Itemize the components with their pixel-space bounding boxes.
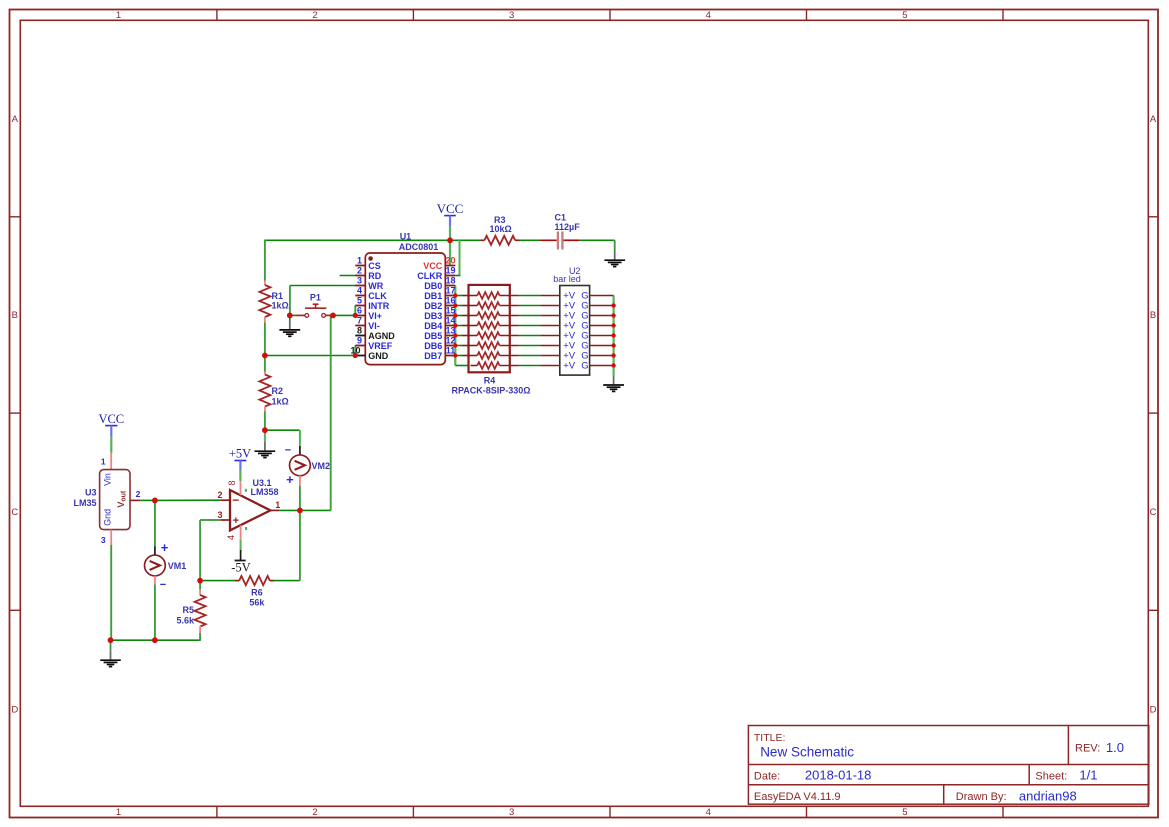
svg-text:REV:: REV:: [1075, 743, 1100, 755]
power flag -5V: [231, 540, 250, 575]
svg-text:4: 4: [357, 286, 362, 296]
svg-text:VCC: VCC: [437, 201, 464, 216]
wire P1 to output node: [330, 315, 332, 510]
junction node GND-pin10: [353, 353, 358, 358]
svg-text:INTR: INTR: [368, 301, 389, 311]
svg-text:1: 1: [116, 10, 121, 21]
junction node VI+: [353, 313, 358, 318]
junction nodes DB bus: [453, 293, 457, 357]
svg-text:Drawn By:: Drawn By:: [956, 791, 1007, 803]
svg-text:GND: GND: [368, 351, 389, 361]
svg-text:−: −: [285, 444, 291, 456]
wire R3 to C1: [519, 239, 540, 241]
wire R2 bottom: [264, 412, 266, 431]
svg-text:56k: 56k: [249, 598, 265, 608]
svg-text:C: C: [11, 507, 18, 518]
svg-text:A: A: [12, 114, 19, 125]
svg-text:Sheet:: Sheet:: [1035, 770, 1067, 782]
wire P1 to VI+: [333, 314, 355, 316]
junction node P1-right: [330, 313, 336, 319]
svg-text:TITLE:: TITLE:: [754, 732, 786, 744]
svg-text:DB4: DB4: [424, 321, 442, 331]
resistor R5 5.6k: [176, 589, 205, 633]
svg-text:4: 4: [226, 535, 236, 540]
svg-text:5: 5: [902, 10, 907, 21]
svg-text:Date:: Date:: [754, 770, 780, 782]
svg-text:CLK: CLK: [368, 291, 387, 301]
svg-text:U3: U3: [85, 488, 97, 498]
svg-text:2: 2: [312, 10, 317, 21]
voltmeter VM1: [145, 540, 187, 591]
svg-text:D: D: [1150, 704, 1157, 715]
wire VM2 to output node: [299, 486, 301, 510]
svg-text:1kΩ: 1kΩ: [272, 396, 289, 406]
svg-text:2: 2: [136, 489, 141, 499]
junction node GND-left: [262, 353, 268, 359]
svg-text:-5V: -5V: [231, 561, 250, 575]
resistor R3 10k: [480, 215, 519, 245]
svg-text:VI+: VI+: [368, 311, 382, 321]
svg-text:3: 3: [509, 10, 514, 21]
junction node VCC: [447, 237, 453, 243]
svg-text:1: 1: [101, 456, 106, 466]
svg-text:3: 3: [101, 535, 106, 545]
wire LM35 gnd down: [110, 545, 112, 640]
resistor R1 1k: [259, 281, 288, 323]
svg-text:4: 4: [706, 807, 711, 818]
svg-text:−: −: [160, 579, 166, 591]
svg-text:2: 2: [217, 490, 222, 500]
pushbutton P1: [290, 293, 333, 318]
svg-text:5: 5: [902, 807, 907, 818]
svg-text:VREF: VREF: [368, 341, 393, 351]
svg-text:6: 6: [357, 306, 362, 316]
wire R2 node to VM2: [265, 430, 300, 446]
svg-text:DB7: DB7: [424, 351, 442, 361]
svg-text:20: 20: [445, 256, 455, 266]
junction node R2-bottom: [262, 427, 268, 433]
svg-text:+: +: [233, 515, 239, 527]
svg-text:bar led: bar led: [553, 274, 581, 284]
wire VREF to GND: [354, 346, 356, 356]
svg-text:4: 4: [706, 10, 711, 21]
svg-text:10kΩ: 10kΩ: [489, 224, 511, 234]
svg-text:VCC: VCC: [423, 261, 443, 271]
svg-text:DB5: DB5: [424, 331, 442, 341]
svg-text:A: A: [1150, 114, 1157, 125]
svg-text:+: +: [161, 540, 169, 555]
power flag VCC (net VCC at U3): [98, 412, 124, 453]
svg-text:RPACK-8SIP-330Ω: RPACK-8SIP-330Ω: [451, 386, 530, 396]
svg-text:DB6: DB6: [424, 341, 442, 351]
svg-text:D: D: [11, 704, 18, 715]
wire R1 to R2: [264, 323, 266, 372]
svg-text:DB0: DB0: [424, 281, 442, 291]
wire op-amp pin3: [200, 520, 220, 581]
svg-text:DB1: DB1: [424, 291, 442, 301]
svg-text:3: 3: [509, 807, 514, 818]
svg-text:1: 1: [116, 807, 121, 818]
wire LM35 out: [140, 499, 155, 501]
wire GND row (R1/R2 node to pin 10): [265, 355, 355, 357]
ground (below R2): [264, 442, 266, 450]
IC U1 ADC0801: [350, 231, 455, 364]
svg-text:1kΩ: 1kΩ: [272, 300, 289, 310]
svg-text:−: −: [232, 493, 239, 507]
wire to pin 19 CLKR: [455, 240, 460, 275]
wire rail to ground: [110, 640, 112, 650]
wire C1 to ground: [579, 240, 615, 250]
svg-text:Vin: Vin: [103, 473, 113, 486]
junction node Vout: [152, 498, 158, 504]
wire VCC rail (R1 top to R3): [265, 239, 481, 241]
resistor pack R4 RPACK-8SIP-330: [451, 285, 530, 396]
LED bar U2: [540, 266, 613, 375]
junction node rail-left: [108, 637, 114, 643]
ground (main, below rail): [110, 650, 112, 659]
junction nodes U2 bus: [611, 303, 615, 367]
svg-text:CS: CS: [368, 261, 381, 271]
wire R5 top: [199, 581, 201, 589]
svg-text:18: 18: [445, 276, 455, 286]
svg-text:8: 8: [227, 480, 237, 485]
svg-text:19: 19: [445, 266, 455, 276]
wire WR to P1: [290, 286, 356, 316]
svg-text:DB3: DB3: [424, 311, 442, 321]
svg-text:2: 2: [312, 807, 317, 818]
svg-text:3: 3: [357, 276, 362, 286]
svg-text:1.0: 1.0: [1106, 740, 1124, 755]
junction node rail-VM1: [152, 637, 158, 643]
svg-text:R2: R2: [272, 386, 284, 396]
svg-text:+V: +V: [563, 361, 576, 372]
op-amp U3.1 LM358: [217, 478, 280, 540]
svg-text:AGND: AGND: [368, 331, 395, 341]
svg-text:LM35: LM35: [73, 498, 96, 508]
voltmeter VM2: [285, 444, 330, 487]
wire R2 node to ground stem: [264, 430, 266, 442]
resistor R6 56k: [235, 576, 274, 608]
ground (right of C1): [614, 251, 616, 260]
wire VCC junction to pin 20: [449, 241, 451, 266]
svg-text:CLKR: CLKR: [417, 271, 442, 281]
svg-text:5: 5: [357, 296, 362, 306]
svg-text:9: 9: [357, 336, 362, 346]
svg-text:VM2: VM2: [312, 461, 331, 471]
svg-text:1: 1: [357, 256, 362, 266]
wire R1 top: [264, 240, 266, 281]
svg-text:2018-01-18: 2018-01-18: [805, 768, 872, 783]
svg-text:+5V: +5V: [229, 447, 251, 461]
svg-text:EasyEDA V4.11.9: EasyEDA V4.11.9: [754, 791, 841, 803]
wire R6 right: [274, 510, 300, 580]
svg-text:Gnd: Gnd: [103, 509, 113, 526]
wire Vout to op-amp: [155, 499, 220, 501]
svg-text:3: 3: [217, 510, 222, 520]
wire INTR drop: [354, 306, 356, 316]
svg-text:WR: WR: [368, 281, 383, 291]
svg-text:LM358: LM358: [251, 487, 279, 497]
svg-text:8: 8: [357, 326, 362, 336]
resistor R2 1k: [259, 372, 288, 412]
svg-text:G: G: [581, 361, 588, 372]
wire DB vertical bus: [454, 286, 456, 366]
svg-text:+: +: [286, 472, 294, 487]
svg-text:ADC0801: ADC0801: [399, 242, 439, 252]
svg-text:5.6k: 5.6k: [176, 616, 195, 626]
wire R6 left: [200, 580, 235, 582]
ground (below U2): [613, 376, 615, 385]
junction node P1-left: [287, 313, 293, 319]
svg-text:R5: R5: [182, 605, 194, 615]
svg-text:R6: R6: [251, 587, 263, 597]
svg-text:B: B: [12, 310, 18, 321]
junction node R6-left: [197, 578, 203, 584]
wires DB taps to R4: [455, 296, 470, 366]
capacitor C1 112uF: [540, 212, 580, 249]
svg-text:P1: P1: [310, 293, 321, 303]
svg-text:andrian98: andrian98: [1019, 788, 1077, 803]
svg-text:112µF: 112µF: [555, 222, 581, 232]
wire Vout to VM1: [154, 500, 156, 546]
svg-text:1: 1: [275, 500, 280, 510]
power flag +5V: [229, 447, 251, 481]
wire RD stub: [340, 275, 356, 277]
svg-text:U1: U1: [400, 231, 412, 241]
wire op-amp out: [280, 509, 331, 511]
wire R5 bottom: [199, 633, 201, 641]
wire VM1 to rail: [154, 585, 156, 641]
svg-text:B: B: [1150, 310, 1156, 321]
svg-text:RD: RD: [368, 271, 381, 281]
svg-text:C1: C1: [555, 212, 567, 222]
svg-text:1/1: 1/1: [1079, 768, 1097, 783]
svg-text:2: 2: [357, 266, 362, 276]
svg-text:VCC: VCC: [98, 412, 124, 426]
ground (below P1): [289, 315, 291, 321]
svg-text:R4: R4: [484, 375, 496, 385]
wire ground rail: [110, 639, 200, 641]
svg-text:New Schematic: New Schematic: [760, 744, 854, 759]
svg-text:DB2: DB2: [424, 301, 442, 311]
temperature sensor U3 LM35: [73, 453, 140, 545]
wires R4 to U2: [519, 296, 541, 366]
junction node output: [297, 508, 303, 514]
svg-text:VM1: VM1: [168, 561, 187, 571]
power flag VCC (net VCC at U1): [437, 201, 464, 241]
wire U2 cathode bus: [612, 296, 614, 376]
title block: [748, 726, 1148, 805]
svg-text:C: C: [1150, 507, 1157, 518]
svg-text:VI-: VI-: [368, 321, 380, 331]
svg-text:7: 7: [357, 316, 362, 326]
